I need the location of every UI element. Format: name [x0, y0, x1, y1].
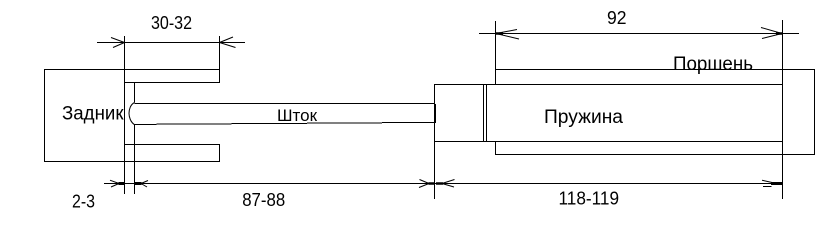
piston outer tube bottom edge: [496, 154, 816, 156]
extension line A at back block right face x=124.5: [124, 36, 126, 194]
svg-text:30-32: 30-32: [151, 13, 192, 33]
arrow 2-3 left tip blob: [119, 182, 125, 185]
svg-text:87-88: 87-88: [242, 190, 285, 210]
top ear right edge + extension line for 30-32: [219, 36, 221, 83]
connector block left edge + extension line x=434.5: [434, 84, 436, 199]
back block (Задник) left edge: [44, 69, 46, 162]
rod (Шток) bottom edge (slightly sloped): [135, 122, 436, 124]
piston outer tube right edge: [814, 69, 816, 155]
spring right edge + extension line x=782.5: [782, 20, 784, 199]
dimension line 92: [479, 33, 799, 35]
connector + spring shared bottom edge: [435, 141, 784, 143]
arrow 92 left (tip at x=495.5 pointing left): [496, 30, 519, 40]
svg-text:Шток: Шток: [277, 106, 318, 125]
arrow 118-119 left tip blob: [436, 182, 443, 185]
arrow 118-119 left (tip at x=436 pointing left): [442, 180, 455, 188]
arrow 118-119 right tip blob: [771, 182, 783, 185]
arrow 87-88 right tip blob: [429, 182, 435, 185]
arrow 92 right (tip at x=782.5 pointing right): [761, 28, 782, 39]
rod (Шток) top edge: [135, 103, 436, 105]
arrow 92 right tip blob: [776, 32, 783, 35]
piston outer tube left edge upper segment + extension line x=495.5: [495, 21, 497, 84]
svg-text:92: 92: [607, 8, 627, 28]
arrow 118-119 right (tip at x=782.5 pointing right): [762, 180, 772, 186]
arrow 30-32 left (tip at x=124.5 pointing right): [111, 38, 125, 48]
dimension line 30-32: [97, 42, 245, 44]
arrow 2-3 right outside (tip at x=134.5 pointing left): [141, 181, 148, 188]
piston outer tube top edge: [495, 69, 815, 71]
back block / bottom ear shared bottom edge: [44, 161, 220, 163]
spring left edge (double line, second): [486, 84, 488, 142]
svg-text:118-119: 118-119: [559, 189, 620, 209]
top ear bottom edge: [124, 82, 220, 84]
rod right end thick edge: [434, 104, 436, 123]
svg-text:Пружина: Пружина: [544, 107, 623, 128]
bottom ear top edge: [124, 144, 220, 146]
svg-text:Поршень: Поршень: [673, 54, 753, 75]
rod left rounded cap: [129, 103, 135, 125]
back block / top ear shared top edge: [44, 69, 220, 71]
arrow 30-32 right (tip at x=219.5 pointing left): [220, 37, 236, 48]
arrow 87-88 right (tip at x=434.5 pointing right): [419, 180, 429, 188]
extension line B lower segment x=134.5: [134, 125, 136, 195]
arrow 92 left tip blob: [496, 32, 504, 35]
arrow 2-3 right tip blob: [135, 182, 142, 185]
extension line B upper segment x=134.5: [134, 82, 136, 103]
connector + spring shared top edge: [435, 84, 784, 86]
bottom dimension line 2-3 / 87-88 / 118-119: [104, 183, 783, 185]
connector right edge (double line, first): [483, 84, 485, 142]
svg-text:Задник: Задник: [62, 104, 124, 125]
arrow 2-3 left outside (tip at x=124.5 pointing right): [110, 180, 119, 187]
svg-text:2-3: 2-3: [72, 192, 95, 212]
piston outer tube left edge lower segment: [495, 142, 497, 156]
bottom ear right edge: [219, 144, 221, 162]
